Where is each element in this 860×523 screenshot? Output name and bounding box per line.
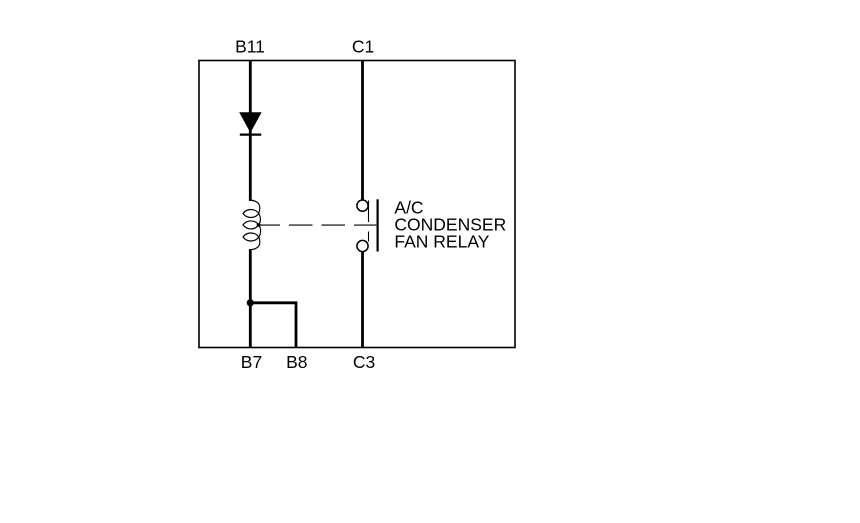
- svg-text:FAN RELAY: FAN RELAY: [394, 231, 489, 251]
- switch armature linkage lines: [368, 201, 370, 242]
- svg-text:B7: B7: [241, 352, 262, 372]
- wire switch to C3: [361, 252, 364, 348]
- svg-text:B8: B8: [286, 352, 307, 372]
- junction node: [247, 299, 254, 306]
- wire branch to B8: [250, 303, 296, 348]
- svg-text:C1: C1: [352, 36, 374, 56]
- mechanical linkage dashed line: [257, 224, 377, 226]
- relay switch contacts: [357, 200, 368, 252]
- relay outline box: [199, 61, 515, 348]
- wire coil to junction: [249, 249, 252, 348]
- diode D1: [240, 113, 261, 135]
- wire B11 to coil: [249, 61, 252, 202]
- switch movable blade bar: [377, 199, 379, 251]
- coil actuation dot: [257, 223, 261, 227]
- svg-text:C3: C3: [353, 352, 375, 372]
- svg-text:B11: B11: [235, 36, 265, 56]
- relay coil L1: [243, 200, 261, 250]
- wire C1 to switch: [361, 61, 364, 201]
